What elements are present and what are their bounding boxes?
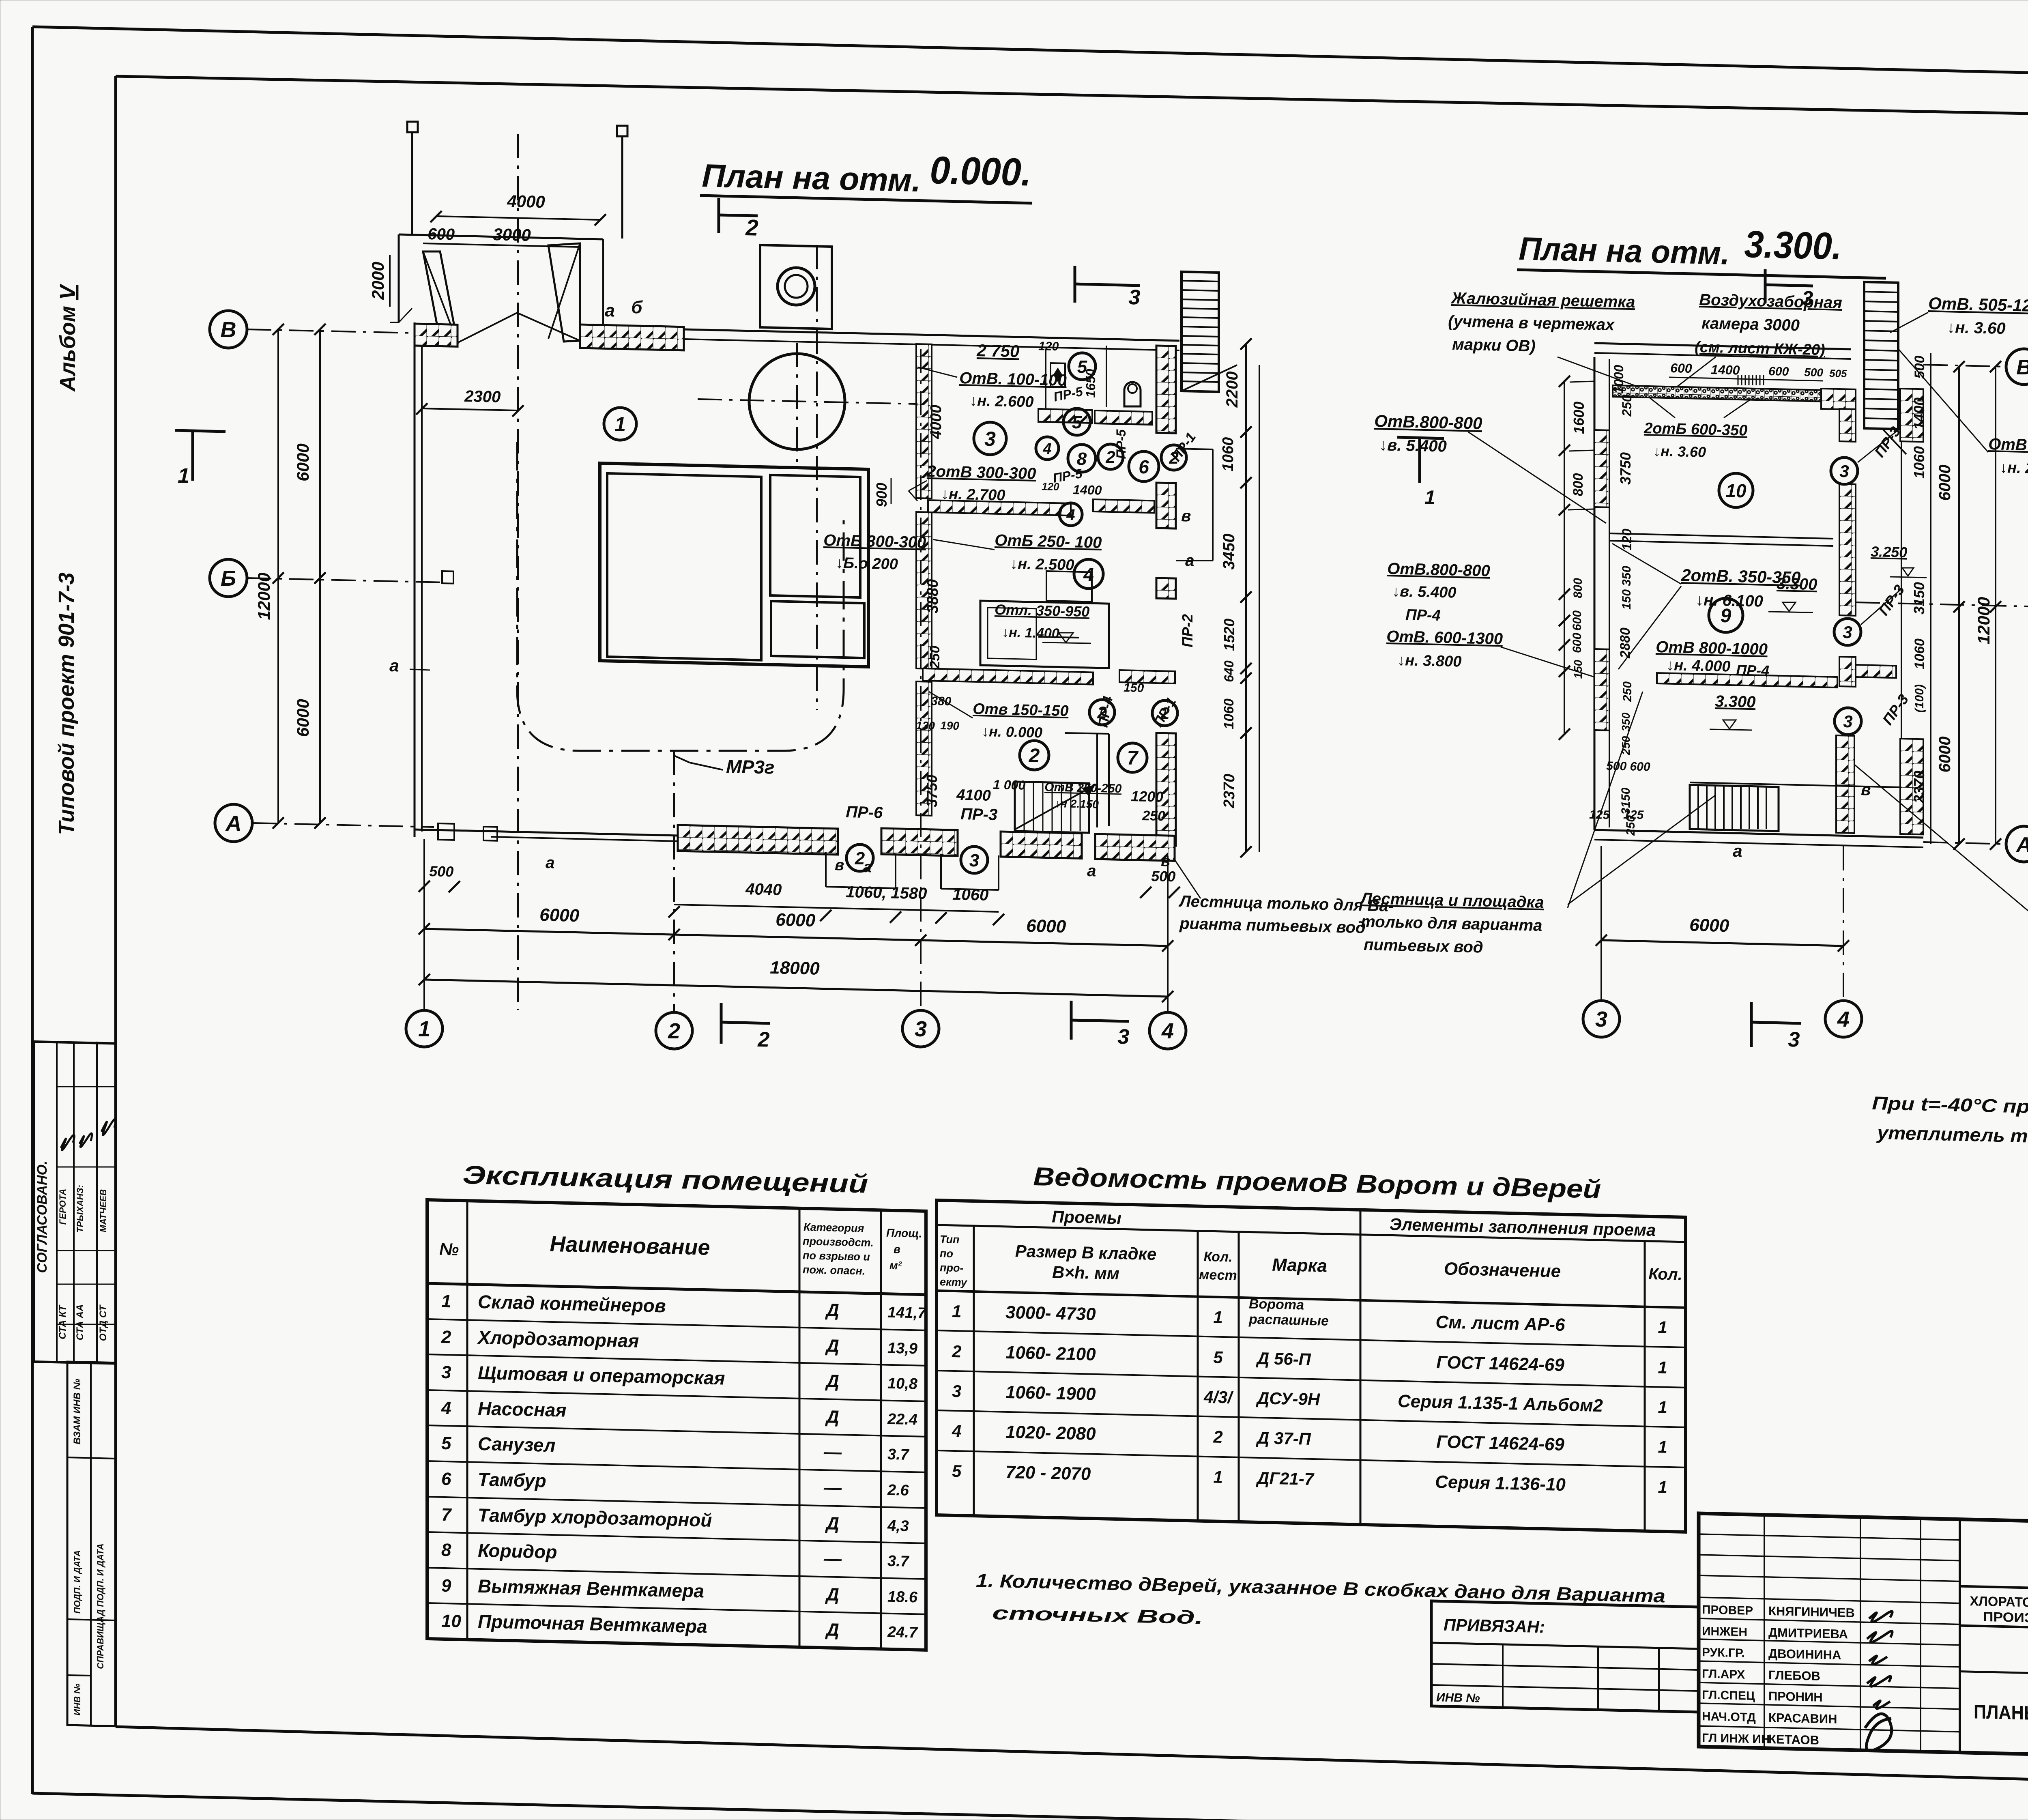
svg-text:1: 1 (952, 1302, 961, 1321)
left dim lines (277, 329, 279, 823)
plan2 axis circle 4 (1825, 1001, 1862, 1037)
plan2 north wall (1594, 343, 1851, 349)
room circle 4b (1059, 503, 1082, 526)
svg-text:1: 1 (441, 1291, 451, 1312)
vent circle outer (778, 268, 815, 305)
svg-text:СТА АА: СТА АА (75, 1304, 86, 1341)
svg-text:Хлордозаторная: Хлордозаторная (477, 1327, 639, 1352)
plan1 east wall mid pier (1156, 578, 1176, 599)
svg-text:План на отм.: План на отм. (1519, 230, 1730, 271)
svg-text:Д: Д (825, 1513, 839, 1534)
svg-text:а: а (389, 656, 399, 675)
svg-text:ОтВ 250-250: ОтВ 250-250 (1044, 780, 1122, 795)
svg-text:3: 3 (952, 1382, 961, 1401)
axis A line (252, 823, 434, 827)
svg-text:ДСУ-9Н: ДСУ-9Н (1256, 1388, 1321, 1409)
dim row 6000x3 (424, 929, 1168, 946)
svg-text:8: 8 (1077, 449, 1087, 469)
svg-text:Насосная: Насосная (478, 1398, 567, 1421)
axis circle V (210, 311, 247, 348)
svg-text:3: 3 (915, 1017, 927, 1041)
svg-text:1: 1 (1658, 1477, 1667, 1497)
svg-text:А: А (2015, 833, 2028, 857)
svg-text:ПР-5: ПР-5 (1114, 429, 1128, 459)
svg-text:ВЗАМ ИНВ №: ВЗАМ ИНВ № (72, 1378, 83, 1444)
svg-text:ПР-4: ПР-4 (1405, 606, 1441, 624)
plan2 section mark 1 left (1397, 437, 1444, 438)
svg-text:Проемы: Проемы (1052, 1207, 1121, 1227)
plan2 east inner wall seg B (hatched) (1839, 484, 1856, 616)
svg-text:120: 120 (1620, 529, 1634, 550)
svg-text:Воздухозаборная: Воздухозаборная (1699, 291, 1843, 312)
svg-text:СОГЛАСОВАНО.: СОГЛАСОВАНО. (34, 1161, 50, 1273)
plan2 room circle 10 (1719, 473, 1753, 507)
svg-text:150: 150 (1124, 681, 1144, 695)
svg-text:380: 380 (931, 694, 952, 708)
room circle 4 (1074, 559, 1103, 589)
svg-text:В: В (2016, 356, 2028, 379)
svg-text:250: 250 (927, 646, 943, 669)
plan1 stairs top right (1182, 272, 1237, 392)
svg-text:1060- 2100: 1060- 2100 (1005, 1343, 1096, 1364)
svg-text:2880: 2880 (1618, 627, 1633, 659)
svg-text:3.300: 3.300 (1777, 575, 1817, 593)
svg-text:1: 1 (1658, 1358, 1667, 1377)
svg-text:ОтБ 300-300: ОтБ 300-300 (823, 531, 926, 552)
svg-text:в: в (1161, 853, 1171, 870)
svg-text:ОтВ. 600-1300: ОтВ. 600-1300 (1386, 627, 1503, 648)
axis B line (247, 578, 446, 582)
plan2 east inner wall seg D (hatched) (1836, 735, 1854, 833)
svg-text:в: в (894, 1243, 900, 1255)
gate door swing lines (458, 312, 518, 343)
svg-text:4: 4 (952, 1421, 961, 1441)
svg-text:ОтВ 170-170: ОтВ 170-170 (1988, 435, 2028, 456)
svg-text:7: 7 (441, 1505, 452, 1525)
svg-text:1060: 1060 (1912, 638, 1927, 669)
svg-text:2: 2 (757, 1028, 770, 1052)
svg-text:ГЛ.СПЕЦ: ГЛ.СПЕЦ (1702, 1688, 1755, 1703)
svg-text:СТА КТ: СТА КТ (57, 1304, 68, 1339)
svg-text:КНЯГИНИЧЕВ: КНЯГИНИЧЕВ (1768, 1604, 1855, 1620)
svg-text:Д: Д (825, 1336, 839, 1356)
bottom axis stems (423, 839, 425, 1010)
svg-text:250: 250 (1620, 395, 1634, 417)
svg-text:1650: 1650 (1083, 369, 1098, 398)
svg-text:1: 1 (614, 413, 626, 436)
svg-text:СПРАВИЩАД ПОДП. И ДАТА: СПРАВИЩАД ПОДП. И ДАТА (95, 1543, 105, 1669)
svg-text:Тамбур: Тамбур (478, 1469, 546, 1491)
svg-text:↓н. 3.60: ↓н. 3.60 (1653, 443, 1706, 460)
svg-text:А: А (225, 811, 242, 836)
stamp signatures (61, 1135, 74, 1150)
room circle 7 (1118, 743, 1147, 772)
svg-text:ПР-6: ПР-6 (846, 803, 883, 822)
svg-text:1000: 1000 (1611, 365, 1626, 393)
svg-text:3150: 3150 (1619, 787, 1633, 814)
porch door outlines bottom (826, 852, 999, 890)
svg-text:600: 600 (1570, 610, 1584, 631)
svg-text:1400: 1400 (1073, 482, 1102, 498)
plan1 section mark 2 top (718, 198, 720, 233)
sidebar lower table (67, 1362, 116, 1726)
svg-text:3750: 3750 (924, 775, 940, 807)
svg-text:4000: 4000 (507, 191, 545, 211)
svg-text:Д 56-П: Д 56-П (1256, 1349, 1311, 1369)
svg-text:500: 500 (1804, 366, 1824, 379)
svg-text:—: — (823, 1442, 842, 1462)
svg-text:6: 6 (1139, 456, 1149, 477)
svg-text:ПРОВЕР: ПРОВЕР (1702, 1603, 1753, 1618)
svg-text:План на отм.: План на отм. (702, 157, 922, 198)
vent circle inner (785, 275, 808, 298)
svg-text:10: 10 (441, 1611, 461, 1631)
svg-text:6000: 6000 (539, 905, 580, 926)
south wall column marks (438, 823, 454, 840)
svg-text:(учтена в чертежах: (учтена в чертежах (1448, 312, 1616, 334)
svg-text:4: 4 (1161, 1019, 1174, 1043)
svg-text:Тип: Тип (940, 1233, 960, 1246)
svg-text:(100): (100) (1913, 684, 1926, 713)
svg-text:2отБ 600-350: 2отБ 600-350 (1643, 420, 1748, 439)
svg-text:4: 4 (1083, 564, 1094, 585)
svg-text:ПРОНИН: ПРОНИН (1768, 1689, 1823, 1704)
svg-text:2отВ 300-300: 2отВ 300-300 (926, 462, 1036, 483)
svg-text:4: 4 (1837, 1007, 1850, 1031)
room circle 3 (974, 422, 1006, 455)
room circle 2d (1089, 700, 1115, 725)
svg-text:ОтВ.800-800: ОтВ.800-800 (1387, 560, 1490, 580)
svg-text:ОТД СТ: ОТД СТ (98, 1304, 109, 1341)
svg-text:Д: Д (825, 1584, 839, 1605)
plan2 east inner wall top L (hatched) (1821, 389, 1856, 410)
svg-text:ОтВ 800-1000: ОтВ 800-1000 (1656, 638, 1768, 658)
svg-text:ГЛЕБОВ: ГЛЕБОВ (1768, 1668, 1820, 1683)
svg-text:9: 9 (1721, 605, 1732, 627)
svg-text:4: 4 (1066, 507, 1075, 524)
plan2 balcony floor line (1690, 782, 1901, 787)
svg-text:3000- 4730: 3000- 4730 (1005, 1302, 1096, 1324)
svg-text:№: № (439, 1240, 459, 1259)
plan1 east wall upper (hatched) (1156, 346, 1176, 433)
svg-text:↓н. 2.700: ↓н. 2.700 (941, 486, 1005, 504)
plan2 west wall (1594, 357, 1596, 830)
svg-text:3: 3 (1117, 1025, 1130, 1049)
svg-text:Д: Д (825, 1300, 839, 1320)
gate canopy top (399, 234, 603, 239)
tank axis horizontal (698, 399, 917, 404)
svg-text:1600: 1600 (1570, 402, 1587, 434)
svg-text:350: 350 (1620, 566, 1633, 586)
plan2 east outer wall (1901, 426, 1902, 739)
interior wall room1/rooms (hatched, vertical) (916, 344, 932, 499)
svg-text:ДВОИНИНА: ДВОИНИНА (1768, 1646, 1841, 1662)
svg-text:250: 250 (1621, 681, 1634, 702)
svg-text:КЕТАОВ: КЕТАОВ (1768, 1732, 1819, 1747)
stair symbol room2 (1015, 782, 1095, 833)
svg-text:ГЛ ИНЖ ИН: ГЛ ИНЖ ИН (1702, 1731, 1770, 1746)
svg-text:Отв 150-150: Отв 150-150 (973, 700, 1069, 720)
svg-text:МАТЧЕЕВ: МАТЧЕЕВ (98, 1189, 108, 1232)
svg-text:500: 500 (1151, 868, 1176, 885)
svg-text:5: 5 (1072, 413, 1082, 432)
svg-text:2: 2 (1029, 745, 1040, 767)
plan2 left dim line (1564, 381, 1565, 734)
svg-text:Кол.: Кол. (1648, 1265, 1682, 1284)
svg-text:ИНВ №: ИНВ № (1436, 1691, 1480, 1705)
axis circle B (210, 559, 247, 597)
svg-text:Марка: Марка (1272, 1255, 1327, 1276)
room circle 1 (604, 408, 636, 440)
svg-text:Д: Д (825, 1371, 839, 1391)
svg-text:↓н. 2.600: ↓н. 2.600 (969, 392, 1034, 411)
svg-text:Б: Б (221, 566, 236, 591)
svg-text:1: 1 (1213, 1467, 1222, 1487)
plan2 door circles 3 (1831, 458, 1858, 484)
svg-text:3: 3 (1788, 1028, 1800, 1052)
svg-text:ОтВ. 505-1255: ОтВ. 505-1255 (1928, 294, 2028, 316)
svg-text:4000: 4000 (928, 405, 945, 440)
svg-text:ГОСТ 14624-69: ГОСТ 14624-69 (1436, 1432, 1564, 1455)
svg-text:Склад контейнеров: Склад контейнеров (478, 1291, 666, 1317)
crane track dash-dot rounded boundary (517, 442, 844, 751)
svg-text:3: 3 (1843, 712, 1852, 731)
svg-text:720 - 2070: 720 - 2070 (1005, 1462, 1091, 1484)
svg-text:130: 130 (916, 719, 935, 732)
svg-text:600: 600 (428, 225, 455, 244)
svg-text:1: 1 (1658, 1317, 1667, 1337)
svg-text:4: 4 (1042, 440, 1051, 458)
dim 900 leader (891, 478, 892, 504)
svg-text:1: 1 (1213, 1307, 1222, 1327)
svg-text:а: а (546, 854, 555, 872)
section mark 2 bottom (720, 1003, 723, 1044)
svg-text:Ворота: Ворота (1249, 1296, 1304, 1313)
svg-text:1020- 2080: 1020- 2080 (1005, 1422, 1096, 1444)
svg-text:120: 120 (1038, 340, 1059, 353)
plan2 room circle 9 (1709, 598, 1743, 632)
svg-text:м²: м² (889, 1259, 902, 1272)
svg-text:0.000.: 0.000. (930, 148, 1032, 194)
svg-text:250: 250 (1142, 808, 1166, 824)
svg-text:1400: 1400 (1711, 362, 1740, 378)
svg-text:7: 7 (1127, 748, 1139, 769)
axis circle 2 (656, 1012, 692, 1049)
svg-text:3: 3 (1839, 462, 1849, 481)
svg-text:ПР-3: ПР-3 (960, 805, 998, 824)
svg-text:Д: Д (825, 1407, 839, 1427)
svg-text:Серия 1.136-10: Серия 1.136-10 (1435, 1472, 1566, 1495)
room circle 5 (1069, 353, 1096, 380)
svg-text:ИНВ №: ИНВ № (72, 1684, 82, 1716)
plan2 exterior ladder (1864, 282, 1906, 454)
svg-text:↓н 2.150: ↓н 2.150 (1055, 797, 1099, 810)
plan1 section mark 1 left (175, 430, 226, 432)
equipment block room4 (980, 601, 1109, 668)
interior wall room4/lower (hatched) (923, 668, 1093, 685)
svg-text:ОтВ. 100-100: ОтВ. 100-100 (959, 369, 1067, 389)
plan2 title underline (1517, 270, 1886, 278)
svg-text:2: 2 (441, 1327, 451, 1347)
svg-text:500 600: 500 600 (1606, 759, 1650, 774)
svg-text:а: а (1185, 552, 1194, 569)
svg-text:500: 500 (1912, 356, 1927, 379)
axis V line (247, 329, 415, 333)
svg-text:5: 5 (952, 1461, 962, 1481)
equipment centerline (816, 245, 818, 710)
svg-text:3: 3 (441, 1362, 451, 1383)
svg-text:1520: 1520 (1221, 619, 1237, 651)
svg-text:18000: 18000 (770, 958, 820, 979)
svg-text:НАЧ.ОТД: НАЧ.ОТД (1702, 1710, 1756, 1724)
gate centerline (517, 134, 519, 1010)
svg-text:3.300: 3.300 (1715, 692, 1756, 711)
svg-text:1: 1 (178, 464, 190, 488)
roof vent square (760, 245, 832, 329)
svg-text:МР3г: МР3г (726, 756, 775, 778)
svg-text:ПОДП. И ДАТА: ПОДП. И ДАТА (72, 1550, 82, 1614)
svg-text:1060: 1060 (1220, 437, 1237, 472)
svg-text:пож. опасн.: пож. опасн. (803, 1263, 865, 1277)
room circle 2c (1020, 741, 1049, 770)
svg-text:1: 1 (1658, 1437, 1667, 1457)
svg-text:по взрыво и: по взрыво и (803, 1249, 870, 1263)
svg-text:190: 190 (940, 719, 960, 732)
svg-text:18.6: 18.6 (887, 1588, 918, 1606)
tank circle (749, 354, 845, 449)
plan2 south wall (1594, 830, 1923, 838)
WC toilet symbol (1124, 382, 1141, 406)
svg-text:8: 8 (441, 1540, 451, 1560)
svg-text:150: 150 (1572, 660, 1584, 679)
svg-text:1200: 1200 (1131, 788, 1164, 805)
plan1 south wall west thin part (415, 829, 678, 836)
sidebar approval stamp box (34, 1042, 116, 1364)
plan2 east inner wall seg C (hatched) (1839, 657, 1856, 687)
svg-text:по: по (940, 1247, 953, 1260)
svg-text:10: 10 (1725, 480, 1747, 501)
interior wall room3/room4 (hatched) (928, 500, 1071, 516)
svg-text:3: 3 (984, 428, 996, 450)
level mark room4 (1059, 633, 1073, 642)
svg-text:6000: 6000 (1936, 465, 1954, 501)
svg-text:2370: 2370 (1221, 774, 1238, 809)
svg-text:↓н. 3.800: ↓н. 3.800 (1397, 652, 1462, 670)
svg-text:2200: 2200 (1223, 372, 1241, 408)
svg-text:2: 2 (952, 1342, 961, 1361)
svg-text:ГЕРОТА: ГЕРОТА (58, 1189, 68, 1225)
svg-text:Санузел: Санузел (478, 1433, 555, 1456)
svg-text:↓н. 1.400: ↓н. 1.400 (1002, 625, 1059, 641)
svg-text:2: 2 (668, 1019, 680, 1043)
room circle 4c (1036, 437, 1059, 460)
svg-text:6000: 6000 (1936, 737, 1954, 773)
plan2 chamber grille (1738, 375, 1764, 385)
svg-text:↓н. 3.60: ↓н. 3.60 (1947, 318, 2006, 337)
axis circle A (215, 804, 252, 842)
svg-text:Д: Д (825, 1620, 839, 1640)
svg-text:ОтВ.800-800: ОтВ.800-800 (1374, 411, 1482, 433)
MR3g label (690, 763, 723, 770)
svg-text:Площ.: Площ. (886, 1227, 922, 1240)
svg-text:а: а (605, 301, 615, 321)
plan1 title underline (700, 196, 1032, 203)
svg-text:150: 150 (1620, 589, 1633, 610)
svg-text:ДМИТРИЕВА: ДМИТРИЕВА (1768, 1625, 1848, 1641)
plan1 south wall segments (hatched) (678, 825, 838, 855)
plan2 top small dims 600 1400 600 500 505 (1669, 377, 1823, 381)
svg-text:3750: 3750 (1617, 452, 1634, 485)
svg-text:екту: екту (940, 1276, 968, 1289)
svg-text:600: 600 (1768, 365, 1789, 378)
svg-text:2300: 2300 (464, 387, 501, 406)
dim line 2000 (389, 255, 391, 307)
svg-text:а: а (863, 859, 872, 876)
gate leaf left (423, 251, 458, 343)
svg-text:ПРИВЯЗАН:: ПРИВЯЗАН: (1444, 1615, 1545, 1637)
svg-text:5: 5 (1213, 1347, 1223, 1367)
note stairs variant (plan1) (1173, 858, 1201, 898)
svg-text:250: 250 (1624, 815, 1637, 836)
room circle 2a (1098, 444, 1123, 469)
svg-text:6000: 6000 (776, 910, 816, 930)
svg-text:В: В (221, 318, 236, 342)
explication table grid (427, 1200, 927, 1650)
svg-text:а: а (1087, 862, 1096, 880)
svg-text:9: 9 (441, 1576, 451, 1596)
svg-text:КРАСАВИН: КРАСАВИН (1768, 1710, 1837, 1726)
svg-text:1060: 1060 (1911, 446, 1927, 479)
svg-text:640: 640 (1222, 660, 1236, 682)
plan2 partition 9/lower (hatched) (1657, 673, 1837, 688)
svg-text:4: 4 (441, 1398, 451, 1418)
plan1 wall pier a-b (hatched) (580, 324, 684, 350)
svg-text:↓н. 0.000: ↓н. 0.000 (982, 723, 1043, 741)
plan2 air chamber dotted wall (1613, 385, 1851, 402)
svg-text:Наименование: Наименование (550, 1232, 710, 1260)
lower partition room2/room7 (1065, 733, 1109, 734)
room circle 8 (1068, 445, 1096, 472)
svg-text:б: б (631, 297, 643, 318)
svg-text:12000: 12000 (1974, 597, 1993, 645)
svg-text:3.7: 3.7 (887, 1446, 910, 1463)
svg-text:3.300.: 3.300. (1744, 223, 1842, 267)
svg-text:производст.: производст. (803, 1235, 874, 1249)
svg-text:3000: 3000 (493, 225, 531, 245)
leader lines upper annotations (917, 367, 957, 377)
svg-text:3.7: 3.7 (887, 1553, 910, 1570)
svg-text:1: 1 (418, 1017, 430, 1041)
svg-text:Размер В кладке: Размер В кладке (1015, 1241, 1156, 1263)
svg-text:800: 800 (1570, 473, 1586, 496)
plan1 north wall (684, 329, 917, 335)
plan2 axis A (2006, 826, 2028, 862)
svg-text:10,8: 10,8 (887, 1375, 918, 1393)
room circle 5b (1063, 408, 1090, 435)
vent shaft symbol in WC (1051, 363, 1065, 387)
dim row 18000 (424, 980, 1168, 997)
svg-text:1 000: 1 000 (993, 777, 1026, 793)
svg-text:Типовой проект 901-7-3: Типовой проект 901-7-3 (54, 572, 79, 835)
svg-text:6000: 6000 (293, 699, 312, 737)
svg-text:900: 900 (873, 483, 890, 507)
svg-text:6: 6 (441, 1469, 451, 1489)
svg-text:Обозначение: Обозначение (1444, 1259, 1561, 1281)
svg-text:120: 120 (1042, 480, 1060, 493)
svg-text:про-: про- (940, 1261, 963, 1274)
door circle 3 bottom (961, 847, 988, 873)
plan2 section mark 3 bottom (1750, 1002, 1753, 1047)
